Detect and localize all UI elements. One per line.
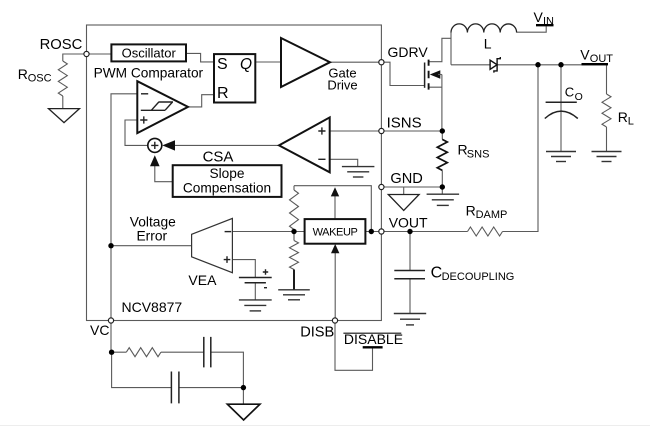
- svg-text:Error: Error: [136, 228, 167, 243]
- svg-text:L: L: [628, 115, 634, 127]
- svg-text:OSC: OSC: [28, 73, 52, 85]
- svg-text:PWM Comparator: PWM Comparator: [94, 65, 204, 80]
- svg-text:CSA: CSA: [203, 148, 234, 165]
- svg-text:Compensation: Compensation: [183, 181, 271, 196]
- svg-text:VOUT: VOUT: [389, 214, 428, 230]
- svg-text:ROSC: ROSC: [40, 37, 83, 53]
- svg-text:DECOUPLING: DECOUPLING: [442, 271, 515, 283]
- svg-text:V: V: [580, 47, 590, 63]
- svg-text:L: L: [484, 35, 492, 51]
- svg-text:Drive: Drive: [327, 77, 357, 92]
- svg-text:GDRV: GDRV: [388, 44, 429, 60]
- svg-text:DAMP: DAMP: [476, 209, 508, 221]
- svg-text:Voltage: Voltage: [130, 215, 176, 230]
- svg-text:S: S: [217, 56, 228, 73]
- svg-text:VC: VC: [90, 322, 109, 338]
- svg-text:ISNS: ISNS: [387, 115, 422, 132]
- svg-text:R: R: [618, 109, 628, 125]
- svg-text:NCV8877: NCV8877: [122, 299, 183, 315]
- svg-text:R: R: [466, 203, 476, 219]
- svg-text:WAKEUP: WAKEUP: [313, 227, 358, 239]
- svg-text:OUT: OUT: [590, 53, 614, 65]
- svg-text:Q: Q: [240, 56, 252, 73]
- svg-text:IN: IN: [543, 16, 554, 28]
- svg-text:DISABLE: DISABLE: [344, 331, 403, 347]
- svg-text:Slope: Slope: [209, 166, 244, 181]
- svg-text:SNS: SNS: [467, 149, 490, 161]
- svg-text:R: R: [217, 85, 229, 102]
- svg-text:C: C: [431, 265, 443, 282]
- svg-text:O: O: [575, 91, 583, 103]
- svg-text:Oscillator: Oscillator: [122, 46, 177, 61]
- svg-text:VEA: VEA: [188, 272, 217, 288]
- svg-text:V: V: [534, 9, 544, 25]
- svg-text:R: R: [18, 66, 28, 82]
- svg-text:DISB: DISB: [300, 325, 334, 341]
- svg-text:C: C: [565, 85, 574, 100]
- svg-text:GND: GND: [390, 171, 422, 187]
